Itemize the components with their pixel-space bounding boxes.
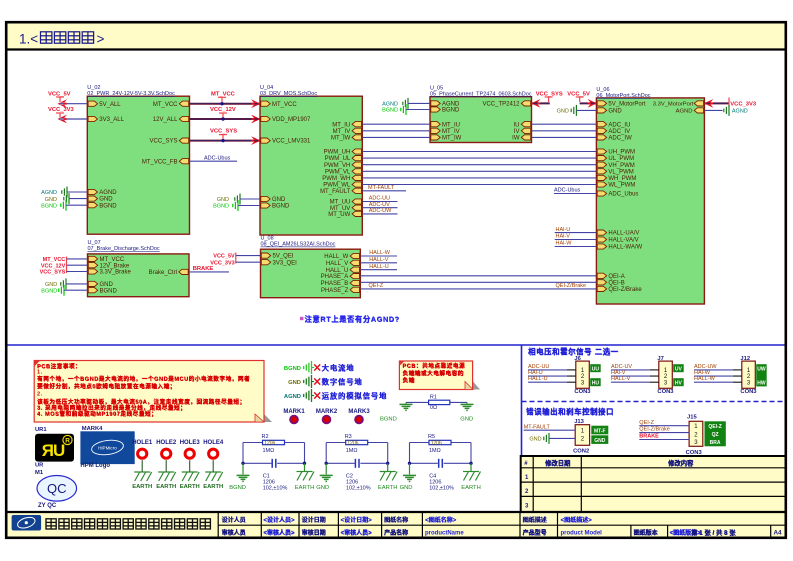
svg-text:1MΩ: 1MΩ: [429, 448, 441, 454]
svg-text:<图纸名称>: <图纸名称>: [425, 516, 457, 524]
svg-text:HAl-W: HAl-W: [694, 370, 711, 376]
svg-text:QEI-Z: QEI-Z: [369, 283, 384, 289]
svg-text:HALL-WA/W: HALL-WA/W: [608, 245, 642, 251]
svg-text:ADC-UU: ADC-UU: [528, 364, 549, 370]
svg-text:R2: R2: [262, 434, 269, 440]
svg-text:PHASE_B: PHASE_B: [321, 281, 349, 287]
svg-text:错误输出和刹车控制接口: 错误输出和刹车控制接口: [526, 407, 614, 416]
svg-text:GND: GND: [45, 197, 57, 203]
svg-text:HALL-V: HALL-V: [611, 376, 631, 382]
svg-text:5V_ALL: 5V_ALL: [99, 102, 121, 108]
svg-text:IW: IW: [512, 136, 520, 142]
svg-text:CON2: CON2: [573, 448, 589, 454]
svg-text:EARTH: EARTH: [132, 484, 152, 490]
svg-text:MT_IV: MT_IV: [442, 129, 460, 135]
svg-text:QEI-B: QEI-B: [608, 280, 624, 286]
svg-text:MT_VCC: MT_VCC: [153, 102, 178, 108]
svg-text:VCC_SYS: VCC_SYS: [149, 139, 177, 145]
svg-text:ADC-UV: ADC-UV: [611, 364, 632, 370]
svg-text:修改内容: 修改内容: [667, 459, 694, 468]
svg-text:<图纸描述>: <图纸描述>: [561, 516, 593, 524]
svg-text:HALL-W: HALL-W: [694, 376, 716, 382]
svg-text:VDD_MP1907: VDD_MP1907: [272, 117, 311, 123]
svg-text:QC: QC: [47, 481, 67, 496]
svg-text:HALL_W: HALL_W: [324, 254, 348, 260]
svg-text:1MΩ: 1MΩ: [346, 448, 358, 454]
svg-text:ADC-UW: ADC-UW: [369, 208, 392, 214]
svg-text:1.: 1.: [37, 370, 43, 376]
svg-text:<审核人员>: <审核人员>: [341, 529, 373, 537]
svg-text:HAl-U: HAl-U: [556, 227, 571, 233]
svg-text:UL_PWM: UL_PWM: [608, 156, 634, 162]
svg-text:BGND: BGND: [380, 417, 397, 423]
svg-text:MT_VCC: MT_VCC: [211, 91, 236, 97]
svg-text:VL_PWM: VL_PWM: [608, 169, 633, 175]
svg-text:GND: GND: [45, 282, 57, 288]
svg-text:ЯU: ЯU: [42, 441, 65, 460]
svg-text:MT_IU: MT_IU: [332, 122, 350, 128]
svg-text:IU: IU: [514, 122, 520, 128]
svg-text:PWM_UL: PWM_UL: [325, 156, 351, 162]
svg-text:审核人员: 审核人员: [222, 529, 246, 537]
svg-text:VCC_12V: VCC_12V: [210, 107, 236, 113]
svg-text:GND: GND: [100, 282, 114, 288]
svg-text:06_MotorPort.SchDoc: 06_MotorPort.SchDoc: [596, 93, 650, 99]
svg-text:ADC-UW: ADC-UW: [694, 364, 717, 370]
svg-text:MT-FAULT: MT-FAULT: [368, 185, 395, 191]
svg-text:ZY QC: ZY QC: [38, 503, 57, 509]
svg-text:0Ω: 0Ω: [430, 405, 437, 411]
svg-text:ADC-UU: ADC-UU: [369, 196, 390, 202]
svg-text:HW: HW: [757, 380, 766, 386]
svg-text:GND: GND: [557, 108, 569, 114]
svg-text:ADC_Ubus: ADC_Ubus: [608, 192, 638, 198]
svg-text:MT_VCC: MT_VCC: [100, 257, 125, 263]
svg-text:HALL-W: HALL-W: [369, 250, 391, 256]
svg-text:HALL_U: HALL_U: [326, 268, 349, 274]
svg-text:Brake_Ctrl: Brake_Ctrl: [149, 270, 177, 276]
svg-text:UR: UR: [35, 462, 44, 468]
svg-text:UW: UW: [757, 366, 766, 372]
svg-text:QEI-Z: QEI-Z: [639, 420, 654, 426]
svg-text:AGND: AGND: [442, 102, 460, 108]
svg-text:GND: GND: [217, 197, 229, 203]
svg-text:5V_QEI: 5V_QEI: [273, 254, 294, 260]
svg-text:<审核人员>: <审核人员>: [264, 529, 296, 537]
svg-text:UR1: UR1: [35, 427, 47, 433]
svg-text:R3: R3: [345, 434, 352, 440]
svg-text:CON3: CON3: [686, 450, 703, 456]
svg-text:4. MOS管和前级驱动MP1907走线尽量短；: 4. MOS管和前级驱动MP1907走线尽量短；: [37, 410, 157, 418]
svg-text:102,±10%: 102,±10%: [263, 485, 288, 491]
svg-text:VCC_3V3: VCC_3V3: [730, 102, 757, 108]
svg-text:GND: GND: [460, 417, 473, 423]
svg-text:12V_ALL: 12V_ALL: [153, 117, 178, 123]
svg-text:EARTH: EARTH: [180, 484, 200, 490]
svg-text:HALL-VA/V: HALL-VA/V: [608, 238, 638, 244]
svg-text:MT_VCC_FB: MT_VCC_FB: [142, 159, 178, 165]
svg-text:VCC_3V3: VCC_3V3: [210, 261, 234, 267]
svg-text:第 1 张 / 共 8 张: 第 1 张 / 共 8 张: [691, 528, 736, 537]
svg-text:QEI-A: QEI-A: [608, 274, 624, 280]
svg-text:PCB：共地点靠近电源: PCB：共地点靠近电源: [403, 362, 466, 370]
svg-text:VCC_SYS: VCC_SYS: [210, 129, 237, 135]
svg-text:GND: GND: [99, 197, 113, 203]
svg-text:3V3_ALL: 3V3_ALL: [99, 117, 124, 123]
svg-text:BGND: BGND: [99, 203, 117, 209]
svg-text:VCC_TP2412: VCC_TP2412: [482, 102, 520, 108]
svg-text:BGND: BGND: [229, 485, 246, 491]
svg-text:1206: 1206: [264, 441, 275, 447]
svg-text:02_PWR_24V-12V-5V-3.3V.SchDoc: 02_PWR_24V-12V-5V-3.3V.SchDoc: [87, 91, 175, 97]
svg-text:GND: GND: [400, 485, 413, 491]
svg-text:BGND: BGND: [382, 108, 398, 114]
svg-text:>: >: [97, 32, 105, 47]
svg-text:MT-F: MT-F: [594, 428, 606, 434]
svg-text:HPM Logo: HPM Logo: [80, 463, 110, 469]
svg-text:图纸名称: 图纸名称: [384, 516, 408, 524]
svg-text:MT_UV: MT_UV: [330, 206, 350, 212]
svg-text:MT_UW: MT_UW: [328, 212, 350, 218]
svg-text:MARK2: MARK2: [316, 409, 338, 415]
svg-text:QEI-Z/Brake: QEI-Z/Brake: [639, 427, 670, 433]
svg-text:productName: productName: [425, 531, 464, 537]
svg-text:AGND: AGND: [41, 190, 57, 196]
svg-text:HV: HV: [675, 380, 683, 386]
svg-text:VCC_LMV331: VCC_LMV331: [272, 139, 311, 145]
svg-text:<设计人员>: <设计人员>: [264, 516, 296, 524]
svg-text:GND: GND: [288, 380, 301, 386]
svg-text:M1: M1: [35, 470, 44, 476]
svg-text:GND: GND: [316, 485, 329, 491]
svg-text:HALL-V: HALL-V: [369, 257, 389, 263]
svg-text:UH_PWM: UH_PWM: [608, 150, 635, 156]
svg-text:注意RT上是否有分AGND?: 注意RT上是否有分AGND?: [305, 315, 400, 324]
svg-text:HAl-V: HAl-V: [556, 234, 571, 240]
svg-text:2.: 2.: [37, 391, 43, 397]
svg-text:PWM_UH: PWM_UH: [324, 150, 351, 156]
svg-text:1206: 1206: [347, 441, 358, 447]
svg-text:负端: 负端: [403, 377, 415, 385]
svg-text:要做好分割，共地点0欧姆电阻放置在电源输入端；: 要做好分割，共地点0欧姆电阻放置在电源输入端；: [37, 382, 176, 390]
svg-text:HAl-W: HAl-W: [556, 241, 573, 247]
svg-text:QEI-Z/Brake: QEI-Z/Brake: [556, 283, 587, 289]
svg-text:设计人员: 设计人员: [222, 516, 246, 524]
svg-text:CON3: CON3: [740, 389, 757, 395]
svg-text:MT_IU: MT_IU: [442, 122, 460, 128]
svg-text:相电压和霍尔信号 二选一: 相电压和霍尔信号 二选一: [528, 347, 619, 356]
svg-text:产品型号: 产品型号: [523, 529, 547, 537]
svg-text:CON3: CON3: [657, 389, 674, 395]
svg-text:MARK1: MARK1: [283, 409, 305, 415]
svg-text:BRAKE: BRAKE: [639, 434, 659, 440]
svg-text:BRA: BRA: [710, 440, 721, 446]
svg-text:EARTH: EARTH: [203, 484, 223, 490]
svg-text:WL_PWM: WL_PWM: [608, 183, 635, 189]
svg-text:3.3V_MotorPort: 3.3V_MotorPort: [653, 102, 694, 108]
svg-text:R5: R5: [428, 434, 435, 440]
svg-text:AGND: AGND: [284, 394, 301, 400]
svg-text:BGND: BGND: [284, 366, 301, 372]
svg-text:EARTH: EARTH: [461, 485, 481, 491]
svg-text:R: R: [65, 438, 70, 445]
svg-text:ADC-Ubus: ADC-Ubus: [554, 188, 581, 194]
svg-text:AGND: AGND: [676, 109, 693, 115]
svg-text:HOLE4: HOLE4: [203, 440, 224, 446]
svg-text:BRAKE: BRAKE: [193, 266, 214, 272]
svg-text:ADC_IV: ADC_IV: [608, 129, 630, 135]
svg-text:UV: UV: [675, 366, 683, 372]
svg-text:HiPMicro: HiPMicro: [98, 446, 117, 451]
svg-text:AGND: AGND: [382, 102, 398, 108]
svg-text:PWM_WL: PWM_WL: [323, 183, 351, 189]
svg-text:QEI-Z: QEI-Z: [708, 424, 721, 430]
svg-text:IV: IV: [514, 129, 520, 135]
svg-text:VCC_5V: VCC_5V: [213, 253, 235, 259]
svg-text:BGND: BGND: [272, 204, 290, 210]
svg-text:WH_PWM: WH_PWM: [608, 176, 636, 182]
svg-text:AGND: AGND: [99, 190, 117, 196]
svg-text:HU: HU: [592, 380, 600, 386]
svg-text:PCB注意事项：: PCB注意事项：: [37, 362, 81, 370]
svg-text:大电流地: 大电流地: [322, 364, 355, 373]
svg-text:GND: GND: [529, 437, 541, 443]
svg-text:MT_UU: MT_UU: [330, 200, 351, 206]
svg-text:图纸版本: 图纸版本: [634, 529, 659, 537]
svg-text:EARTH: EARTH: [378, 485, 398, 491]
svg-text:MT_VCC: MT_VCC: [272, 102, 297, 108]
svg-text:设计日期: 设计日期: [302, 516, 326, 524]
svg-text:ADC-Ubus: ADC-Ubus: [204, 155, 231, 161]
svg-text:图纸描述: 图纸描述: [523, 516, 547, 524]
svg-text:product Model: product Model: [561, 531, 603, 537]
svg-text:GND: GND: [594, 438, 606, 444]
svg-text:BGND: BGND: [213, 204, 229, 210]
svg-text:<设计日期>: <设计日期>: [341, 516, 373, 524]
svg-text:1MΩ: 1MΩ: [263, 448, 275, 454]
svg-text:08_QEI_AM26LS32AI.SchDoc: 08_QEI_AM26LS32AI.SchDoc: [261, 242, 336, 248]
svg-text:07_Brake_Discharge.SchDoc: 07_Brake_Discharge.SchDoc: [88, 246, 160, 252]
svg-text:ADC_IW: ADC_IW: [608, 136, 632, 142]
svg-text:05_PhaseCurrent_TP2474_0603.Sc: 05_PhaseCurrent_TP2474_0603.SchDoc: [430, 92, 532, 98]
svg-text:PHASE_A: PHASE_A: [321, 274, 349, 280]
svg-text:3V3_QEI: 3V3_QEI: [273, 260, 298, 266]
svg-text:GND: GND: [608, 109, 622, 115]
svg-text:03_DRV_MOS.SchDoc: 03_DRV_MOS.SchDoc: [260, 91, 317, 97]
svg-text:1.<: 1.<: [19, 32, 38, 47]
svg-text:A4: A4: [774, 530, 783, 537]
svg-text:有两个地，一个BGND是大电流的地，一个GND是MCU的小电: 有两个地，一个BGND是大电流的地，一个GND是MCU的小电流数字地，两者: [37, 375, 250, 383]
svg-text:HALL-U: HALL-U: [528, 376, 548, 382]
svg-text:ADC-UV: ADC-UV: [369, 202, 390, 208]
svg-text:MT_VCC: MT_VCC: [43, 257, 66, 263]
svg-text:HALL-U: HALL-U: [369, 264, 389, 270]
svg-text:BGND: BGND: [442, 108, 460, 114]
svg-text:BGND: BGND: [41, 203, 57, 209]
svg-text:PWM_VH: PWM_VH: [324, 163, 350, 169]
svg-text:CON3: CON3: [574, 389, 591, 395]
svg-text:审核日期: 审核日期: [302, 529, 326, 537]
svg-text:产品名称: 产品名称: [384, 529, 408, 537]
svg-text:HOLE2: HOLE2: [156, 440, 177, 446]
svg-text:数字信号地: 数字信号地: [322, 378, 363, 387]
svg-text:VCC_3V3: VCC_3V3: [48, 107, 75, 113]
svg-text:PWM_VL: PWM_VL: [325, 169, 351, 175]
svg-text:1206: 1206: [431, 441, 442, 447]
svg-text:HOLE1: HOLE1: [132, 440, 153, 446]
svg-text:PWM_WH: PWM_WH: [322, 176, 350, 182]
svg-text:12V_Brake: 12V_Brake: [100, 263, 130, 269]
svg-text:5V_MotorPort: 5V_MotorPort: [608, 102, 645, 108]
svg-text:MT_FAULT: MT_FAULT: [320, 189, 351, 195]
svg-text:VH_PWM: VH_PWM: [608, 163, 634, 169]
svg-text:AGND: AGND: [732, 109, 748, 115]
svg-text:HALL-UA/V: HALL-UA/V: [608, 231, 639, 237]
svg-text:MT_IW: MT_IW: [331, 136, 351, 142]
svg-text:BGND: BGND: [100, 288, 118, 294]
svg-text:MT-FAULT: MT-FAULT: [524, 424, 551, 430]
svg-text:运放的模拟信号地: 运放的模拟信号地: [322, 392, 388, 401]
svg-text:MARK3: MARK3: [348, 409, 370, 415]
svg-text:负端端或大电解电容的: 负端端或大电解电容的: [403, 369, 464, 377]
svg-text:修改日期: 修改日期: [544, 459, 570, 468]
svg-text:QEI-Z/Brake: QEI-Z/Brake: [608, 287, 642, 293]
svg-text:VCC_SYS: VCC_SYS: [40, 270, 66, 276]
svg-text:MT_IW: MT_IW: [442, 136, 462, 142]
svg-text:102,±10%: 102,±10%: [346, 485, 371, 491]
svg-text:PHASE_Z: PHASE_Z: [321, 288, 349, 294]
svg-text:HAl-V: HAl-V: [611, 370, 626, 376]
svg-text:MT_IV: MT_IV: [333, 129, 351, 135]
svg-text:EARTH: EARTH: [295, 485, 315, 491]
svg-text:HOLE3: HOLE3: [180, 440, 201, 446]
svg-text:EARTH: EARTH: [156, 484, 176, 490]
svg-text:3.3V_Brake: 3.3V_Brake: [100, 270, 132, 276]
svg-text:102,±10%: 102,±10%: [429, 485, 454, 491]
svg-text:UU: UU: [592, 366, 600, 372]
svg-text:HALL_V: HALL_V: [326, 261, 348, 267]
svg-text:HAl-U: HAl-U: [528, 370, 543, 376]
svg-text:QZ: QZ: [712, 432, 719, 438]
svg-text:BGND: BGND: [41, 288, 57, 294]
svg-text:ADC_IU: ADC_IU: [608, 122, 630, 128]
svg-text:GND: GND: [272, 197, 286, 203]
svg-text:VCC_12V: VCC_12V: [41, 263, 66, 269]
svg-text:J15: J15: [687, 415, 697, 421]
